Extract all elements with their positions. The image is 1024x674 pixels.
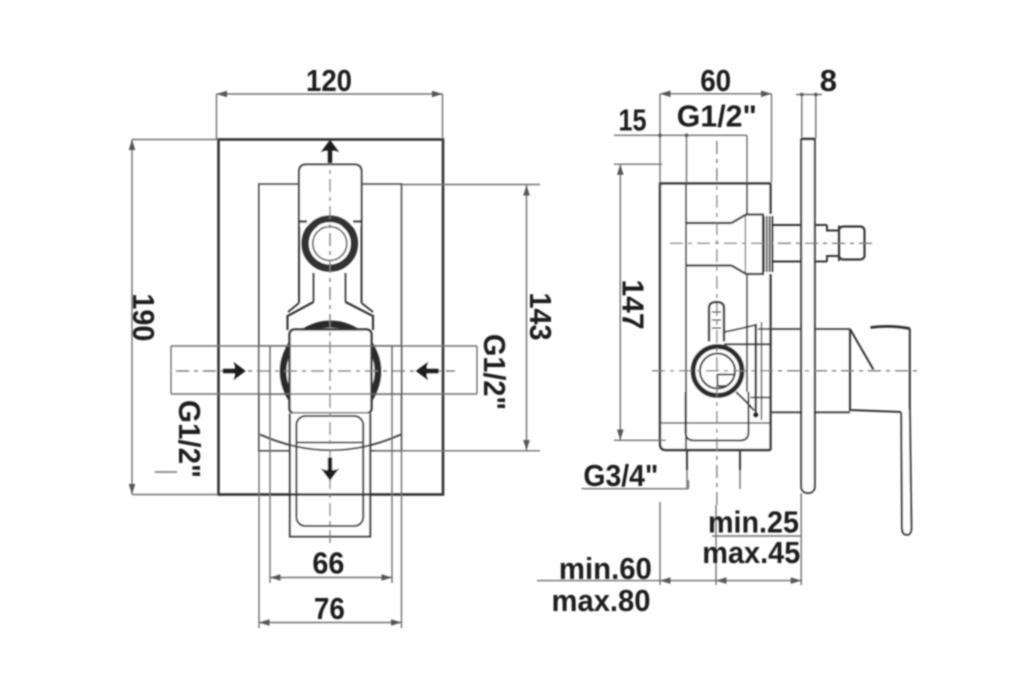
bottom outlet inner rounded tube xyxy=(296,416,363,526)
flare left slant xyxy=(288,302,314,330)
bracket top curve xyxy=(724,325,757,333)
tube inner walls xyxy=(314,273,346,302)
front view vertical centerline xyxy=(329,152,331,545)
dimension 60 xyxy=(660,91,772,184)
flow arrow up xyxy=(321,140,340,163)
label 66 xyxy=(312,546,344,581)
outer rect bottom edge crossing outlet xyxy=(289,493,371,495)
side horizontal centerline xyxy=(652,370,917,372)
side box right edge xyxy=(769,184,771,451)
right inlet port block xyxy=(372,346,402,394)
dimension 120 xyxy=(217,91,443,139)
svg-text:143: 143 xyxy=(523,293,558,341)
side box lower divider xyxy=(660,422,771,424)
side port band top line xyxy=(171,345,477,347)
escutcheon square plate xyxy=(290,329,372,413)
svg-text:190: 190 xyxy=(126,293,161,341)
svg-text:min.60: min.60 xyxy=(559,551,652,586)
side box inner left tube wall xyxy=(685,184,687,451)
cartridge circle inner (side) xyxy=(700,354,735,389)
side port nut xyxy=(746,215,763,275)
handle neck top line xyxy=(758,328,850,330)
label 190 xyxy=(126,293,161,341)
svg-text:G1/2": G1/2" xyxy=(172,400,207,478)
top port inner ring xyxy=(313,227,347,261)
svg-text:120: 120 xyxy=(306,63,352,98)
svg-text:max.80: max.80 xyxy=(552,583,651,618)
cartridge circle behind square xyxy=(283,324,378,419)
S-curve circle to foot xyxy=(736,392,754,411)
svg-text:G1/2": G1/2" xyxy=(677,99,757,134)
side box inner right tube wall xyxy=(746,184,748,393)
label 143 xyxy=(523,293,558,341)
label 8 xyxy=(820,63,837,98)
left G1/2 leader underline xyxy=(155,471,177,473)
bracket arm bottom line xyxy=(724,343,771,345)
side outlet port tube walls xyxy=(686,223,732,266)
svg-text:max.45: max.45 xyxy=(702,535,800,570)
label 76 xyxy=(314,591,345,626)
top supply block xyxy=(299,165,362,227)
left G1/2 label connector vertical xyxy=(170,346,172,394)
side port thread hatch xyxy=(764,216,772,272)
handle neck lower stub xyxy=(751,397,771,399)
side port band bottom line xyxy=(171,393,477,395)
side recess box xyxy=(660,184,771,451)
label max.80 xyxy=(552,583,651,618)
label G3/4 with leader xyxy=(582,480,689,489)
dimension 76 xyxy=(259,451,402,628)
outer wall plate rectangle (120 x 190) xyxy=(219,140,444,495)
dimension 190 xyxy=(129,140,218,495)
cartridge block bottom (side) xyxy=(686,392,749,441)
label 60 xyxy=(700,63,731,98)
side port flare xyxy=(732,215,747,275)
svg-text:G3/4": G3/4" xyxy=(583,458,658,493)
left port inner edge xyxy=(269,346,271,394)
dimension 147 xyxy=(614,164,666,440)
flare outer slantlets xyxy=(288,303,373,312)
label max.45 xyxy=(702,535,800,570)
dimension 15 and G1/2 leader xyxy=(614,134,747,184)
wall plate xyxy=(801,139,815,494)
escutcheon foot xyxy=(753,412,759,418)
recess box inner rectangle (143 high) xyxy=(259,184,402,451)
svg-text:8: 8 xyxy=(820,63,837,98)
flow arrow right (left inlet) xyxy=(223,362,246,381)
label G1/2 top xyxy=(677,99,757,134)
dimension min/max depth line xyxy=(537,493,802,585)
cartridge keyway xyxy=(718,375,736,387)
dimension 143 xyxy=(375,185,540,451)
svg-text:G1/2": G1/2" xyxy=(477,334,512,410)
flow arrow left (right inlet) xyxy=(416,362,439,381)
cartridge circle (side) xyxy=(693,347,742,396)
left inlet port block xyxy=(259,346,290,394)
top port nut outer ring xyxy=(305,219,355,269)
escutcheon edge front line xyxy=(755,324,757,415)
right port inner edge xyxy=(391,346,393,394)
block bottom corner nubs xyxy=(299,220,362,222)
bottom outlet tube extension xyxy=(687,470,740,489)
svg-text:66: 66 xyxy=(312,546,344,581)
label 120 xyxy=(306,63,352,98)
handle hub xyxy=(850,326,910,412)
flow arrow down (outlet) xyxy=(321,458,340,481)
label min.60 xyxy=(559,551,652,586)
side port centerline xyxy=(670,242,872,244)
through-wall tube xyxy=(772,225,827,262)
flare right slant xyxy=(346,302,374,330)
side vertical centerline xyxy=(716,141,718,509)
svg-text:60: 60 xyxy=(700,63,731,98)
escutcheon edge back line xyxy=(761,322,763,420)
right G1/2 label connector vertical xyxy=(476,346,478,394)
label 147 xyxy=(616,280,651,330)
dimension 8 xyxy=(796,93,822,139)
handle lever xyxy=(901,409,911,535)
min25 max45 separator bar xyxy=(712,535,801,537)
outlet divider line xyxy=(296,442,363,444)
front view horizontal centerline xyxy=(176,370,455,372)
label G1/2 right xyxy=(477,334,512,410)
svg-text:15: 15 xyxy=(619,103,647,138)
bottom outlet tube (side) xyxy=(687,450,740,470)
label min.25 xyxy=(708,505,799,540)
label G1/2 left xyxy=(172,400,207,478)
label 15 xyxy=(619,103,647,138)
top tube outer walls xyxy=(299,226,362,303)
bottom outlet outer tube xyxy=(290,414,370,537)
lower escutcheon arc xyxy=(260,435,401,451)
adjuster pin xyxy=(709,302,724,342)
connector end block xyxy=(839,227,865,260)
dimension 66 xyxy=(270,394,392,583)
svg-text:76: 76 xyxy=(314,591,345,626)
pin thread dashes xyxy=(712,312,721,328)
connector neck xyxy=(827,225,839,262)
svg-text:147: 147 xyxy=(616,280,651,330)
handle neck bottom line xyxy=(771,411,850,413)
